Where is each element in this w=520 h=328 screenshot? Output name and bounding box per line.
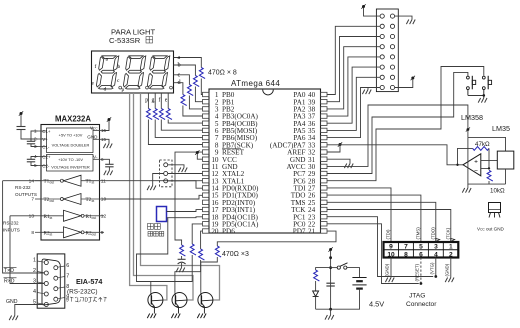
svg-text:INPUTS: INPUTS [3, 228, 20, 233]
pin 32 AREF [321, 150, 328, 154]
pin 34 PA6 [321, 135, 328, 139]
pin 3 [44, 282, 48, 286]
pin 6 [93, 158, 103, 160]
pin 1 [44, 261, 48, 265]
voltage inverter block [47, 155, 94, 172]
pin 15 PD1(TXD0) [203, 193, 210, 197]
svg-text:47kΩ: 47kΩ [475, 141, 490, 148]
svg-text:VOLTAGE INVERTER: VOLTAGE INVERTER [51, 165, 90, 170]
svg-text:in: in [92, 199, 95, 203]
svg-text:V-: V- [93, 155, 98, 160]
svg-text:−: − [474, 168, 478, 175]
svg-text:10kΩ: 10kΩ [490, 188, 505, 195]
wire PA3 [327, 57, 380, 116]
svg-text:in: in [92, 181, 95, 185]
svg-text:d: d [104, 87, 107, 93]
wire segment c to resistor [174, 75, 190, 85]
wire TDO [327, 195, 421, 242]
svg-text:8: 8 [31, 230, 34, 236]
svg-text:C-533SR: C-533SR [109, 36, 141, 45]
wire resonator mid left ground [153, 174, 164, 186]
svg-text:out: out [50, 199, 55, 203]
capacitor C6 [326, 282, 334, 284]
pin 39 PA1 [321, 100, 328, 104]
wire segment f [160, 93, 162, 109]
wire resistor to PB pin [189, 96, 202, 109]
pin 25 TMS [321, 200, 328, 204]
resistor R8 470ohm [166, 109, 172, 120]
wire PD6 to R11 [201, 231, 203, 249]
connector J1 EIA-574 D-sub9 [37, 254, 65, 308]
pin 20 PD6 [203, 229, 210, 233]
battery BT1 4.5V [352, 277, 366, 279]
wire segment e [167, 93, 169, 109]
wire resistor to PB pin [148, 120, 202, 145]
voltage doubler block [47, 128, 94, 153]
svg-text:b: b [118, 64, 121, 70]
ground under Q2 [171, 314, 180, 319]
connector J2 pin header 2x8 [376, 9, 398, 92]
pin 7 [54, 276, 58, 280]
svg-text:in: in [50, 232, 53, 236]
svg-text:C1-: C1- [42, 145, 50, 150]
svg-text:PD6: PD6 [222, 228, 235, 236]
ground GND pin15 [103, 139, 109, 143]
svg-text:in: in [50, 216, 53, 220]
pin 5 [44, 303, 48, 307]
capacitor C4 on V- [103, 159, 109, 164]
wire to LED branch [316, 268, 331, 270]
buffer T1 [64, 175, 82, 186]
svg-text:(RESET): (RESET) [415, 263, 420, 281]
svg-text:12: 12 [101, 213, 107, 219]
svg-text:+: + [474, 159, 478, 166]
svg-text:9: 9 [389, 244, 393, 251]
svg-text:10: 10 [101, 197, 107, 203]
svg-text:+10V TO -10V: +10V TO -10V [58, 157, 83, 162]
svg-text:T×D: T×D [4, 268, 14, 274]
pin 21 PD7 [321, 229, 328, 233]
svg-text:9: 9 [101, 230, 104, 236]
wire resistor to PB pin [183, 106, 203, 117]
svg-text:21: 21 [308, 228, 316, 236]
pin 16 PD2(INT0) [203, 200, 210, 204]
wire PA5 [327, 77, 380, 130]
connector J3 JTAG 2x5 [384, 242, 459, 258]
svg-text:6: 6 [419, 251, 423, 258]
pin 3 C1- [38, 146, 47, 148]
resonator X1 (dashed) [160, 160, 173, 187]
wire TxD [3, 180, 41, 182]
wire AVCC rail [327, 105, 468, 166]
svg-text:6: 6 [66, 263, 69, 269]
resistor R1 470ohm [199, 68, 205, 79]
svg-text:470Ω × 8: 470Ω × 8 [208, 70, 237, 77]
pin 2 [44, 271, 48, 275]
svg-text:11: 11 [101, 178, 106, 184]
power symbol VCC left [20, 112, 23, 115]
wire digit3 common [141, 93, 220, 300]
wire T2in to PD1 [104, 195, 203, 199]
buffer R2 [64, 227, 82, 238]
wire R10 to Q1 base [151, 255, 192, 293]
svg-text:EIA-574: EIA-574 [76, 277, 102, 286]
svg-text:7: 7 [404, 244, 408, 251]
wire switches common ground [468, 94, 484, 96]
buffer R1 [64, 210, 82, 221]
wire digit1 common [130, 93, 167, 300]
pin 36 PA4 [321, 121, 328, 125]
wire LM35 gnd [505, 169, 507, 184]
wire fb to inverting input [481, 148, 489, 168]
svg-text:C2+: C2+ [42, 155, 51, 160]
wire resonator mid to XTAL2 [168, 173, 203, 175]
pin 40 PA0 [321, 92, 328, 96]
svg-text:p: p [122, 87, 125, 93]
svg-text:PD7: PD7 [293, 228, 306, 236]
svg-text:(VTG): (VTG) [430, 262, 435, 274]
pin 10 VCC [203, 157, 210, 161]
wire PC1 to VTG [327, 217, 433, 277]
pin 5 PB4(OC0B) [203, 121, 210, 125]
resistor R6 470ohm [153, 109, 159, 120]
ground header row8 tap [367, 88, 369, 90]
svg-text:VCC: VCC [90, 126, 98, 131]
svg-text:14: 14 [29, 178, 35, 184]
pin 6 PB5(MOSI) [203, 128, 210, 132]
wire PD5 to R10 [192, 224, 202, 244]
pin 26 TDO [321, 193, 328, 197]
svg-text:2: 2 [449, 251, 453, 258]
svg-text:OUTPUTS: OUTPUTS [15, 192, 37, 197]
resistor R14 10k [487, 170, 493, 181]
resistor R10 470ohm [190, 244, 196, 255]
svg-text:out: out [92, 216, 97, 220]
pin 2 PB1 [203, 100, 210, 104]
ground battery [329, 308, 332, 311]
wire PC6 to SW2 [327, 67, 484, 181]
wire segment d to resistor [174, 83, 183, 95]
switch SW1 [467, 76, 470, 79]
wire header row1 right to ground [395, 16, 412, 19]
svg-text:VCC out GND: VCC out GND [477, 227, 505, 232]
pin 24 TCK [321, 207, 328, 211]
op-amp U3 triangle [463, 154, 481, 176]
svg-text:f: f [159, 97, 161, 104]
transistor Q3 [198, 293, 213, 308]
wire resistor to PB pin [201, 79, 202, 95]
wire PA1 [327, 37, 380, 102]
svg-text:C1+: C1+ [42, 129, 51, 134]
wire T1in to PD0 [104, 181, 203, 189]
wire resistor to PB pin [155, 120, 202, 138]
svg-text:f: f [95, 63, 97, 70]
wire PA0 [327, 26, 380, 94]
svg-text:13: 13 [29, 213, 35, 219]
capacitor C1 bypass [17, 126, 26, 128]
pin 8 PB7(SCK) [203, 143, 210, 147]
pin 22 PC0 [321, 222, 328, 226]
capacitor C2 (pin1-pin3) [31, 131, 38, 141]
wire JTAG pin4 VTG [435, 258, 437, 277]
svg-text:3: 3 [434, 244, 438, 251]
wire segment b to resistor [174, 65, 196, 76]
pin 6 [54, 266, 58, 270]
pin 1 PB0 [203, 92, 210, 96]
svg-text:7: 7 [66, 274, 69, 280]
svg-text:(TMS): (TMS) [415, 227, 420, 240]
wire PA2 [327, 47, 380, 109]
svg-text:out: out [92, 232, 97, 236]
wire TCK [327, 210, 451, 243]
switch SW2 [482, 76, 485, 79]
power dot op-amp rail [467, 128, 470, 131]
svg-text:8: 8 [404, 251, 408, 258]
svg-text:LM358: LM358 [461, 113, 483, 122]
wire JTAG pin2 GND [450, 258, 452, 278]
ground op-amp [467, 184, 469, 188]
svg-text:D: D [85, 298, 89, 304]
pin 23 PC1 [321, 215, 328, 219]
wire feedback [458, 148, 473, 164]
wire (ADC7)PA7 to opamp [327, 145, 463, 165]
pin 9 [54, 297, 58, 301]
resistor R4 470ohm [181, 95, 187, 106]
svg-text:(RS-232C): (RS-232C) [67, 289, 98, 296]
pin 30 AVCC [321, 164, 328, 168]
wire LM35 out to +input [481, 159, 498, 161]
LM35 sensor box [497, 151, 514, 169]
resistor R7 470ohm [159, 109, 165, 120]
pin 14 PD0(RXD0) [203, 186, 210, 190]
transistor Q1 [148, 293, 163, 308]
ground under Q1 [147, 314, 156, 319]
wire RxD [10, 215, 35, 217]
svg-text:a: a [178, 54, 181, 61]
wire PC7 to SW1 [327, 72, 468, 173]
TO-92 LM35 package [489, 203, 501, 213]
svg-text:4: 4 [434, 251, 438, 258]
pin 8 [54, 287, 58, 291]
pin 37 PA3 [321, 114, 328, 118]
wire header row8 right to power [395, 80, 413, 88]
resistor R3 470ohm [187, 85, 193, 96]
svg-text:b: b [178, 62, 181, 69]
wire-end flags above JTAG [436, 239, 455, 242]
pin 31 GND [321, 157, 328, 161]
ground under Q3 [197, 314, 206, 319]
svg-text:(GND): (GND) [445, 263, 450, 276]
svg-text:(TDO): (TDO) [430, 227, 435, 240]
wire resistor to PB pin [195, 87, 202, 102]
resistor R13 47k [473, 146, 489, 150]
pin 15 [93, 138, 103, 140]
resistor R12 470ohm [215, 246, 221, 257]
piezo buzzer BZ1 [157, 207, 167, 222]
wire PA4 [327, 67, 380, 123]
pin 7 PB6(MISO) [203, 135, 210, 139]
resistor R9 reset [180, 245, 186, 256]
svg-text:20: 20 [211, 228, 219, 236]
pin 3 PB2 [203, 107, 210, 111]
svg-text:MAX232A: MAX232A [55, 115, 91, 124]
svg-text:7: 7 [31, 197, 34, 203]
svg-text:ATmega 644: ATmega 644 [231, 79, 280, 88]
wire buzzer return [137, 218, 168, 282]
wire R12 to Q3 base [201, 257, 218, 293]
buffer T2 [64, 194, 82, 205]
svg-text:R×D: R×D [4, 279, 15, 285]
wire resistor to PB pin [161, 120, 202, 131]
svg-text:4.5V: 4.5V [369, 300, 384, 309]
svg-text:LM35: LM35 [492, 124, 510, 133]
svg-text:9: 9 [66, 298, 69, 304]
pin 11 GND [203, 164, 210, 168]
pin 28 PC6 [321, 179, 328, 183]
wire top rail to LM35 [468, 137, 506, 151]
svg-text:(GND): (GND) [385, 263, 390, 276]
svg-text:10: 10 [387, 251, 395, 258]
svg-text:5: 5 [419, 244, 423, 251]
pin 17 PD3(INT1) [203, 207, 210, 211]
wire JTAG pin10 GND [390, 258, 392, 278]
wire JTAG pin6 RESET dashed [420, 258, 422, 284]
pin 1 C1+ [38, 130, 47, 132]
wire resonator top to ground [168, 165, 184, 168]
svg-text:1: 1 [33, 258, 36, 264]
svg-text:c: c [178, 71, 181, 78]
LED D1 [315, 281, 317, 291]
svg-text:V+: V+ [42, 137, 48, 142]
svg-text:(TDI): (TDI) [386, 229, 391, 240]
pin 35 PA5 [321, 128, 328, 132]
op U1 ATmega644 body [209, 89, 321, 233]
pin 16 [93, 130, 103, 132]
wire GND pin31 [327, 159, 350, 163]
wire digit2 common [134, 93, 194, 300]
svg-text:(TCK): (TCK) [445, 227, 450, 239]
svg-text:p: p [145, 98, 148, 104]
wire AREF power [327, 146, 340, 152]
svg-text:RS-232: RS-232 [15, 185, 31, 190]
wire segment p [147, 93, 149, 109]
svg-text:4: 4 [33, 289, 36, 295]
svg-text:JTAG: JTAG [409, 293, 425, 300]
pin 27 TDI [321, 186, 328, 190]
pin 38 PA2 [321, 107, 328, 111]
wire resonator bottom to XTAL1 [168, 180, 203, 182]
power symbol header VCC [362, 5, 365, 8]
svg-text:Connector: Connector [406, 301, 437, 308]
wire PA6 [327, 88, 380, 138]
wire PC0 to RESET dot [327, 224, 419, 284]
svg-text:GND: GND [87, 135, 98, 140]
pin 4 PB3(OC0A) [203, 114, 210, 118]
svg-text:e: e [165, 98, 168, 104]
resistor R5 470ohm [146, 109, 152, 120]
switch SW3 [331, 267, 338, 269]
wire buzzer top to PD3 [167, 210, 203, 212]
pin 29 PC7 [321, 171, 328, 175]
pin 13 XTAL1 [203, 179, 210, 183]
svg-text:g: g [152, 98, 155, 104]
svg-text:+5V TO +10V: +5V TO +10V [59, 133, 83, 138]
wire resistor to PB pin [168, 120, 202, 124]
wire PD7 wrap to R12 [217, 231, 336, 246]
7-segment display module DS1 (PARA LIGHT C-533SR) [92, 28, 174, 94]
svg-text:1: 1 [449, 244, 453, 251]
pin 19 PD5(OC1A) [203, 222, 210, 226]
resistor R11 470ohm [199, 249, 205, 260]
pin 4 [44, 292, 48, 296]
wire GND pin5 [15, 305, 45, 316]
ground [9, 316, 18, 321]
wire RESET pullup [175, 152, 203, 245]
transistor Q2 [172, 293, 187, 308]
wire TDI [327, 188, 391, 242]
svg-text:out: out [50, 181, 55, 185]
pin 4 C2+ [38, 156, 47, 158]
pin 18 PD4(OC1B) [203, 215, 210, 219]
resistor R15 [314, 270, 320, 281]
svg-text:GND: GND [6, 299, 18, 305]
capacitor C5 reset [181, 256, 183, 259]
power symbol VCC pin10 [197, 154, 202, 159]
svg-text:RS-232: RS-232 [3, 221, 19, 226]
pin 33 (ADC7)PA7 [321, 143, 328, 147]
pin 12 XTAL2 [203, 171, 210, 175]
pin 2 V+ [38, 138, 47, 140]
wire segment g [154, 93, 156, 109]
svg-text:C2-: C2- [42, 164, 50, 169]
capacitor C3 (pin4-pin5) [31, 157, 38, 160]
svg-text:VOLTAGE DOUBLER: VOLTAGE DOUBLER [52, 143, 90, 148]
wire buzzer bottom to PD4 [167, 216, 203, 219]
wire segment a to resistor [174, 58, 202, 68]
resistor R2 470ohm [193, 76, 199, 87]
power symbol VCC right [103, 121, 109, 131]
pin 5 C2- [38, 165, 47, 167]
svg-text:470Ω ×3: 470Ω ×3 [222, 251, 249, 258]
wire TMS [327, 202, 436, 242]
power symbol battery node [329, 248, 332, 251]
bottom rail [468, 137, 506, 184]
pin 9 RESET [203, 150, 210, 154]
wire R11 to Q2 base [175, 260, 201, 293]
